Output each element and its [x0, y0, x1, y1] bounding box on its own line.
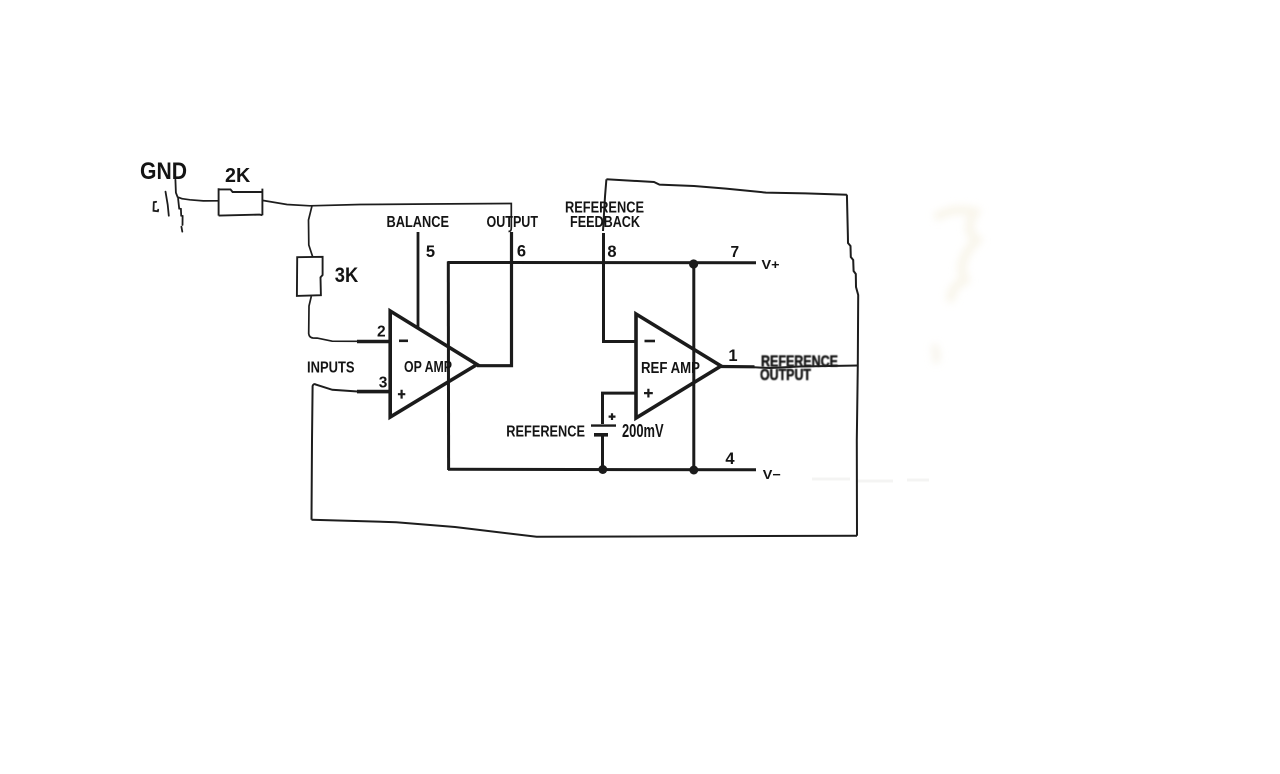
pin 1 output wire [721, 365, 755, 368]
label REFERENCE OUTPUT (smudged) [760, 354, 838, 385]
junction node battery/V- [598, 465, 607, 474]
battery short plate [594, 433, 608, 437]
junction node pin7/V+ [689, 259, 698, 268]
pin 3 stub [357, 390, 391, 394]
V+ rail (top) [448, 261, 757, 264]
svg-text:6: 6 [517, 243, 526, 261]
op-amp minus sign [399, 339, 408, 342]
switch hand strokes [154, 180, 183, 232]
svg-text:7: 7 [730, 244, 739, 261]
svg-text:5: 5 [426, 243, 435, 261]
svg-text:1: 1 [728, 347, 737, 365]
op-amp U1 triangle [390, 311, 477, 417]
svg-text:2: 2 [377, 324, 386, 341]
svg-text:2K: 2K [225, 165, 251, 187]
hand loop top wire [606, 179, 847, 194]
svg-text:3K: 3K [335, 263, 359, 287]
svg-text:V+: V+ [762, 257, 780, 272]
wire pin1 hand extension [754, 366, 858, 369]
wire pin 3 to left loop [312, 384, 358, 520]
resistor 3K body [297, 257, 323, 296]
hand loop left drop to pin 8 [603, 179, 606, 231]
left vertical wire through OP AMP [447, 262, 450, 471]
faint smudge right side [933, 210, 977, 363]
ref-amp plus input wire to battery [603, 393, 637, 424]
hand loop right wire [847, 195, 858, 536]
svg-text:OP AMP: OP AMP [404, 359, 452, 376]
svg-text:REF AMP: REF AMP [641, 360, 700, 377]
svg-text:BALANCE: BALANCE [387, 214, 450, 231]
svg-text:FEEDBACK: FEEDBACK [570, 214, 640, 231]
battery wire to V- rail [601, 436, 604, 469]
svg-text:OUTPUT: OUTPUT [487, 214, 539, 231]
pin 6 wire (OUTPUT) and op-amp output elbow [477, 232, 512, 366]
svg-text:4: 4 [725, 450, 735, 468]
wire GND to 2K [182, 199, 219, 201]
V- rail (bottom) [448, 468, 756, 472]
wire node A down to 3K [309, 206, 313, 257]
svg-text:GND: GND [140, 158, 187, 185]
svg-text:OUTPUT: OUTPUT [760, 367, 811, 384]
ref-amp minus sign [645, 340, 656, 343]
ref-amp U2 triangle [636, 314, 721, 418]
svg-text:REFERENCE: REFERENCE [506, 423, 585, 440]
junction node ref/V- [689, 466, 698, 475]
svg-text:INPUTS: INPUTS [307, 360, 355, 377]
ref-amp plus sign [644, 389, 653, 398]
pin 8 wire (REFERENCE FEEDBACK) to ref-amp minus input [604, 233, 637, 342]
resistor 2K body [219, 188, 263, 215]
op-amp plus sign [398, 390, 405, 399]
right vertical wire through REF AMP [692, 262, 695, 471]
hand loop bottom wire [312, 520, 858, 537]
pin 2 stub [357, 340, 391, 344]
wire 3K to pin 2 [309, 296, 357, 341]
battery long plate [591, 424, 616, 426]
pin 5 wire (BALANCE) [417, 232, 420, 328]
wire 2K to node A to pin 6 [262, 200, 511, 231]
svg-text:200mV: 200mV [622, 421, 664, 441]
svg-text:3: 3 [379, 374, 388, 391]
battery 200mV plus sign [609, 413, 616, 420]
svg-text:8: 8 [607, 243, 616, 261]
svg-text:V−: V− [763, 467, 781, 482]
